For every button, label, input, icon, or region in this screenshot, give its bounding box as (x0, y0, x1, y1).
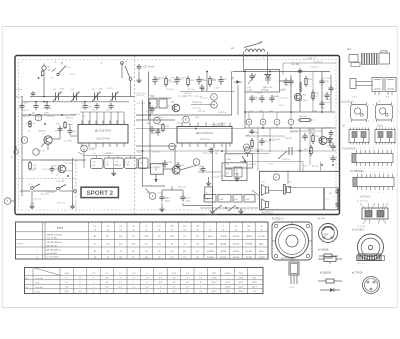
svg-text:КТ315Б: КТ315Б (233, 251, 240, 253)
svg-text:C31 0.05: C31 0.05 (264, 87, 273, 89)
svg-text:4к: 4к (33, 123, 35, 125)
small box mid (205, 187, 213, 199)
speaker box (260, 171, 340, 210)
svg-text:Г2Н-070.2д: Г2Н-070.2д (192, 102, 203, 104)
svg-text:э: э (361, 280, 362, 282)
capacitor C21 (180, 194, 185, 202)
svg-text:С29 15п: С29 15п (219, 175, 227, 177)
svg-text:КТ315Б: КТ315Б (233, 236, 240, 238)
svg-text:R17 5.6к: R17 5.6к (155, 117, 163, 119)
svg-text:Т4 П416: Т4 П416 (88, 148, 97, 150)
wire long h1 (22, 159, 86, 161)
wire w2 drop (243, 52, 245, 72)
capacitor C39 (288, 78, 293, 86)
svg-text:УПЧ-УНЧ: УПЧ-УНЧ (200, 139, 210, 141)
svg-text:1: 1 (360, 148, 361, 150)
switch block dashed (15, 178, 76, 180)
svg-text:C12 10.0: C12 10.0 (322, 78, 331, 80)
svg-text:R36 47: R36 47 (256, 92, 264, 94)
svg-text:СВ 525-1605 кГц: СВ 525-1605 кГц (47, 242, 63, 244)
capacitor C16 (156, 128, 161, 136)
svg-text:R16 51к: R16 51к (299, 116, 307, 118)
capacitor Cm2 (174, 76, 179, 85)
trimmer C41 (249, 73, 254, 81)
svg-text:1 2 3: 1 2 3 (352, 97, 358, 99)
svg-text:C42 96p: C42 96p (291, 64, 300, 66)
svg-text:В СГД2.5 п: В СГД2.5 п (272, 218, 285, 221)
svg-text:Т4 П416: Т4 П416 (65, 163, 74, 165)
ferrite rod antenna (350, 79, 356, 89)
wire v310b (309, 128, 311, 165)
svg-text:W1: W1 (347, 48, 351, 51)
wire if bus (84, 155, 142, 157)
switch S1 contacts (31, 187, 34, 190)
svg-text:1: 1 (383, 172, 384, 174)
test row right (246, 119, 252, 125)
svg-text:6.8к: 6.8к (195, 117, 199, 119)
svg-text:1: 1 (357, 192, 358, 194)
svg-text:ДВ 150-408 кГц: ДВ 150-408 кГц (47, 250, 62, 252)
svg-text:в) ГТ402А: в) ГТ402А (352, 272, 363, 275)
wire h 146 (136, 145, 177, 147)
transistor Tm (172, 166, 180, 174)
svg-text:КП303В: КП303В (207, 257, 214, 259)
svg-text:R14 10к: R14 10к (136, 95, 144, 97)
wire right col (299, 128, 301, 171)
svg-text:Д223А: Д223А (246, 235, 252, 238)
svg-text:СМ-УПЧ-ЧМ: СМ-УПЧ-ЧМ (96, 139, 109, 141)
test point m (273, 174, 279, 180)
coil former L4 (362, 208, 388, 219)
wire fm links (244, 92, 246, 128)
svg-text:C38-4: C38-4 (325, 99, 332, 101)
svg-text:0.022: 0.022 (165, 198, 171, 200)
svg-text:R14 10к: R14 10к (157, 124, 165, 126)
capacitor C42b (319, 100, 324, 108)
wire left rail (21, 97, 23, 197)
svg-text:L4 ПЧ1.0: L4 ПЧ1.0 (360, 196, 371, 199)
capacitor C20 4700 (159, 194, 164, 202)
svg-text:П2К: П2К (150, 96, 155, 98)
capacitor C4B (149, 126, 154, 134)
switch row P2K (204, 195, 216, 203)
wire h165 right (240, 161, 303, 163)
svg-text:Д9Б-1: Д9Б-1 (259, 251, 264, 253)
wire rf top (233, 71, 331, 73)
svg-text:С15: С15 (82, 116, 85, 118)
IF can L7 (376, 105, 393, 121)
svg-text:К 561: К 561 (158, 193, 164, 195)
svg-text:C36 5-20: C36 5-20 (310, 96, 319, 98)
wire mid v2 (237, 85, 239, 115)
svg-text:С20: С20 (106, 110, 109, 112)
svg-text:0.022: 0.022 (214, 87, 220, 89)
svg-text:об.Укв: об.Укв (16, 89, 23, 91)
svg-text:ап а3: ап а3 (268, 164, 273, 166)
svg-text:C44 20.0: C44 20.0 (310, 66, 319, 68)
DIP IC U1 (352, 154, 393, 163)
svg-text:C12 10.0: C12 10.0 (314, 62, 323, 64)
speaker pictorial big (358, 234, 384, 260)
svg-text:R31 2.2к: R31 2.2к (308, 58, 316, 60)
svg-text:R19 330: R19 330 (150, 167, 159, 169)
svg-text:С29 15п: С29 15п (47, 116, 55, 118)
transistor pictorial a (289, 262, 299, 275)
resistor R1 (42, 70, 44, 76)
svg-text:СЮ: СЮ (170, 226, 174, 228)
IF can L11 (351, 105, 368, 121)
capacitor C38 (319, 78, 324, 86)
wire bus a (22, 101, 129, 103)
table2 diag (33, 268, 60, 276)
svg-text:R17 5.6к: R17 5.6к (161, 98, 169, 100)
svg-text:R8 120: R8 120 (262, 135, 270, 137)
svg-text:С52 НПВ: С52 НПВ (307, 129, 316, 131)
svg-text:1: 1 (382, 168, 383, 170)
svg-text:ант 10.7 МГц: ант 10.7 МГц (47, 257, 60, 259)
svg-text:R28 75к: R28 75к (219, 112, 227, 114)
svg-text:1: 1 (383, 192, 384, 194)
wire h 115 (136, 114, 232, 116)
svg-text:C44 20.0: C44 20.0 (183, 93, 192, 95)
trimmer C6 (94, 93, 96, 101)
wire y172 (198, 171, 222, 173)
svg-text:РС т2а: РС т2а (188, 89, 195, 91)
component pictorial top right (358, 254, 381, 261)
svg-text:7.082: 7.082 (247, 90, 253, 92)
capacitor C46 (324, 92, 329, 100)
svg-text:С29 15п: С29 15п (308, 133, 316, 135)
svg-text:202.2: 202.2 (252, 287, 258, 289)
svg-text:1: 1 (364, 148, 365, 150)
svg-text:L5,L6: L5,L6 (377, 126, 383, 128)
caps under fm box (249, 95, 254, 103)
svg-text:Вх.УКВ: Вх.УКВ (16, 97, 24, 99)
table1 outer (16, 222, 269, 259)
svg-text:C26 0.047: C26 0.047 (155, 77, 165, 79)
ground g6b (234, 177, 239, 182)
transistor pictorial v (363, 277, 380, 294)
svg-text:1: 1 (391, 148, 392, 150)
svg-text:C12 10.0: C12 10.0 (137, 103, 146, 105)
IC U2 K174UN4 (177, 127, 232, 144)
jack X4 (284, 185, 286, 195)
svg-text:1: 1 (387, 192, 388, 194)
wire mid links (161, 190, 163, 194)
svg-text:C44 20.0: C44 20.0 (217, 123, 226, 125)
svg-text:С48 30п: С48 30п (152, 151, 160, 153)
diode VD7 (329, 136, 331, 146)
svg-text:1: 1 (364, 168, 365, 170)
junction dots (142, 150, 144, 152)
paper edge top (2, 26, 397, 28)
capacitor C14a (68, 128, 73, 135)
svg-text:2: 2 (368, 121, 369, 123)
svg-text:R28 75к: R28 75к (282, 159, 290, 161)
resistor R45 (251, 138, 253, 149)
wire ic top row (80, 111, 124, 113)
svg-text:Б.у: Б.у (138, 152, 141, 154)
svg-text:2: 2 (258, 198, 259, 200)
svg-text:КП303В: КП303В (207, 251, 214, 253)
svg-text:2.8: 2.8 (116, 161, 119, 163)
svg-text:1: 1 (392, 172, 393, 174)
capacitor C2 (31, 92, 35, 96)
svg-text:ПФ: ПФ (206, 198, 209, 201)
IF filter Z2 (104, 158, 124, 169)
svg-text:0.022: 0.022 (320, 108, 326, 110)
wire h140 right (245, 135, 285, 137)
wire long h128 (136, 128, 245, 130)
resistor Rm3 (187, 76, 190, 87)
svg-text:0.061: 0.061 (238, 278, 244, 280)
resistor R6 (64, 121, 66, 129)
wire y208 (200, 207, 258, 209)
svg-text:0.022: 0.022 (137, 159, 143, 161)
capacitor C19 (176, 162, 181, 170)
svg-text:R8 120: R8 120 (249, 164, 257, 166)
resistor R2 (29, 120, 31, 128)
svg-text:ГТ402А: ГТ402А (207, 243, 214, 246)
transistor T1 (44, 136, 52, 144)
svg-text:-4.7(9): -4.7(9) (325, 102, 331, 104)
svg-text:SPORT 2: SPORT 2 (87, 190, 114, 197)
svg-text:1: 1 (368, 105, 369, 107)
capacitor C16a (58, 126, 63, 133)
svg-text:1: 1 (386, 168, 387, 170)
fm box (245, 70, 280, 93)
svg-text:б) КД503Б: б) КД503Б (320, 273, 331, 275)
wire sp1 jack (269, 190, 284, 192)
svg-text:Uк В: Uк В (35, 283, 40, 285)
paper edge left (1, 27, 3, 308)
wire long v mid (149, 103, 151, 168)
test point 13 (245, 147, 251, 153)
wire sw vertical (31, 191, 33, 204)
test point m2 (243, 144, 249, 150)
test point 2 (21, 137, 28, 144)
varactor D4 (267, 74, 269, 84)
capacitor C8a (19, 103, 24, 110)
IF filter Z1 (91, 159, 104, 169)
svg-text:С29 15п: С29 15п (168, 82, 176, 84)
svg-text:1: 1 (393, 105, 394, 107)
wire h 120 (136, 119, 175, 121)
capacitor C40 (328, 85, 333, 93)
wire strong v142 (142, 100, 144, 186)
wire tp3 (11, 200, 15, 202)
pot box P (151, 164, 164, 175)
svg-text:1: 1 (369, 148, 370, 150)
diode VD2 (234, 81, 242, 83)
svg-text:3: 3 (373, 121, 374, 123)
inner dashed border (19, 60, 337, 211)
svg-text:в1 1 /2 4 2 в: в1 1 /2 4 2 в (357, 201, 368, 203)
paper edge right (396, 27, 398, 308)
ground g6c (238, 209, 243, 214)
svg-text:1: 1 (377, 148, 378, 150)
svg-text:Сн 2/7: Сн 2/7 (107, 88, 114, 90)
svg-text:1: 1 (369, 168, 370, 170)
svg-text:C31 0.05: C31 0.05 (71, 114, 80, 116)
capacitor C10a (44, 103, 49, 110)
svg-text:С4Б 100м: С4Б 100м (324, 128, 333, 130)
svg-text:R17 5.6к: R17 5.6к (193, 108, 201, 110)
svg-text:1: 1 (387, 172, 388, 174)
svg-text:C31 0.05: C31 0.05 (40, 194, 49, 196)
svg-text:C17 0.01: C17 0.01 (42, 169, 51, 171)
svg-text:Х5 0.5Мв: Х5 0.5Мв (64, 141, 72, 143)
svg-text:6/1 1.7Б: 6/1 1.7Б (198, 111, 206, 113)
svg-text:R36 47: R36 47 (56, 181, 64, 183)
svg-text:R25 1к: R25 1к (203, 153, 210, 155)
wire v212 (212, 148, 214, 209)
svg-text:ПЧ 465: ПЧ 465 (297, 150, 305, 152)
svg-text:Д1 К157УЛ1: Д1 К157УЛ1 (95, 129, 112, 133)
wire bus b (22, 114, 76, 116)
ground g5 (210, 209, 215, 214)
svg-text:нВ1: нВ1 (106, 165, 109, 167)
svg-text:ТСН: ТСН (323, 233, 328, 236)
svg-text:510 2ВТ: 510 2ВТ (258, 236, 266, 238)
svg-text:1: 1 (378, 172, 379, 174)
svg-text:Uб В: Uб В (35, 292, 40, 294)
resistor R16 51k (298, 119, 313, 122)
svg-text:6.8к: 6.8к (275, 96, 279, 98)
capacitor C13 (50, 166, 55, 173)
svg-text:1: 1 (361, 192, 362, 194)
svg-text:0.061: 0.061 (211, 278, 217, 280)
coil can L8 (349, 130, 369, 143)
svg-text:нВ2: нВ2 (126, 165, 129, 167)
svg-text:КТ315Б: КТ315Б (220, 257, 227, 259)
wire v258 (257, 128, 259, 171)
svg-text:Д9Б-1: Д9Б-1 (259, 244, 264, 246)
wire h 112 (245, 111, 335, 113)
test point 1 (35, 114, 42, 121)
transistor T3 (172, 104, 180, 112)
wire h63 right (283, 62, 336, 64)
wire right rail2 (321, 72, 323, 113)
svg-text:1: 1 (386, 148, 387, 150)
svg-text:L11,L12,L13: L11,L12,L13 (341, 102, 354, 104)
svg-text:R8 120: R8 120 (312, 166, 320, 168)
svg-text:C17 0.01: C17 0.01 (178, 96, 187, 98)
svg-text:ПЧ 465: ПЧ 465 (174, 174, 182, 176)
svg-text:04Д: 04Д (246, 199, 250, 201)
svg-text:Д9В: Д9В (201, 90, 206, 92)
svg-text:295.2: 295.2 (211, 282, 217, 284)
svg-text:нВт: нВт (92, 165, 95, 167)
svg-text:1: 1 (374, 172, 375, 174)
capacitor C52 (302, 133, 307, 141)
resistor R47 (310, 145, 313, 156)
capacitor C15 (150, 106, 155, 114)
svg-text:U-вх мВ: U-вх мВ (35, 287, 43, 289)
svg-text:0.022: 0.022 (147, 186, 153, 188)
wire mid v1 (206, 72, 208, 92)
svg-text:1: 1 (370, 192, 371, 194)
svg-text:C26 0.047: C26 0.047 (80, 108, 90, 110)
wire long h151 (136, 150, 336, 152)
ground if (111, 171, 116, 176)
test point 8 (149, 193, 156, 200)
capacitor C27 ant (137, 64, 142, 71)
wire input bus (30, 96, 135, 98)
svg-text:C31 0.05: C31 0.05 (167, 106, 176, 108)
resistor R8 (29, 161, 32, 171)
svg-text:а9 1Тд а5 нО: а9 1Тд а5 нО (206, 214, 218, 216)
svg-text:R19 330: R19 330 (43, 108, 52, 110)
svg-text:1: 1 (357, 172, 358, 174)
capacitor C28 6800 (200, 85, 205, 92)
svg-text:вч 10 ГД0.2: вч 10 ГД0.2 (352, 229, 365, 232)
svg-text:R17 5.6к: R17 5.6к (57, 203, 65, 205)
svg-text:R14 10к: R14 10к (34, 198, 42, 200)
wire drop d2 (213, 143, 215, 148)
table2 vlines (32, 268, 34, 294)
capacitor Cm6 (218, 76, 223, 85)
svg-text:040м: 040м (165, 200, 170, 202)
wire v283 (282, 63, 284, 75)
driver box lower (222, 163, 247, 181)
svg-text:С27 антен: С27 антен (143, 66, 155, 69)
DIP IC U2 (353, 178, 394, 187)
svg-text:КТ315Б: КТ315Б (258, 257, 265, 259)
svg-text:R28 75к: R28 75к (37, 151, 45, 153)
resistor pictorial small (319, 255, 324, 257)
resistor Rm1 (165, 76, 168, 87)
IF filter Z3 (125, 158, 138, 169)
wire rf mid (180, 91, 235, 93)
ground sw1 (29, 204, 34, 209)
svg-text:1: 1 (365, 172, 366, 174)
svg-text:R35: R35 (166, 126, 169, 128)
table1 vlines (42, 222, 44, 259)
speaker SP1 (266, 187, 269, 193)
capacitor C50 (259, 138, 264, 146)
table1 hlines (16, 231, 269, 233)
svg-text:Х4: Х4 (289, 182, 291, 184)
speaker pictorial square (272, 222, 312, 260)
svg-text:м: м (246, 146, 248, 149)
svg-text:в2: в2 (100, 63, 102, 65)
svg-text:Т4 П416: Т4 П416 (300, 100, 309, 102)
svg-text:ЧМ0.8М: ЧМ0.8М (38, 131, 46, 133)
speaker SP2 (266, 202, 269, 208)
switch arrows (214, 205, 222, 211)
svg-text:К 561: К 561 (312, 111, 318, 113)
wire t1 links (52, 138, 60, 140)
svg-text:202.2: 202.2 (238, 287, 244, 289)
capacitor C40m (209, 147, 214, 154)
capacitor C9a (33, 103, 38, 110)
wire c27 (138, 72, 140, 79)
component pictorial top mid (318, 258, 324, 260)
svg-text:вЧ КБ1ВБ: вЧ КБ1ВБ (318, 250, 329, 252)
svg-text:б.у: б.у (326, 199, 329, 201)
coil can L5 (375, 130, 395, 143)
svg-text:Т4 П416: Т4 П416 (97, 125, 106, 127)
IC U1 K157XA2 (78, 125, 128, 144)
svg-text:Д9Б-1: Д9Б-1 (208, 236, 213, 238)
svg-text:В СГТ6.0 1: В СГТ6.0 1 (262, 213, 274, 215)
diode pictorial (318, 280, 326, 282)
svg-text:1: 1 (365, 192, 366, 194)
test point 3 (4, 198, 11, 205)
svg-text:0.022: 0.022 (278, 105, 284, 107)
svg-text:4: 4 (373, 105, 374, 107)
